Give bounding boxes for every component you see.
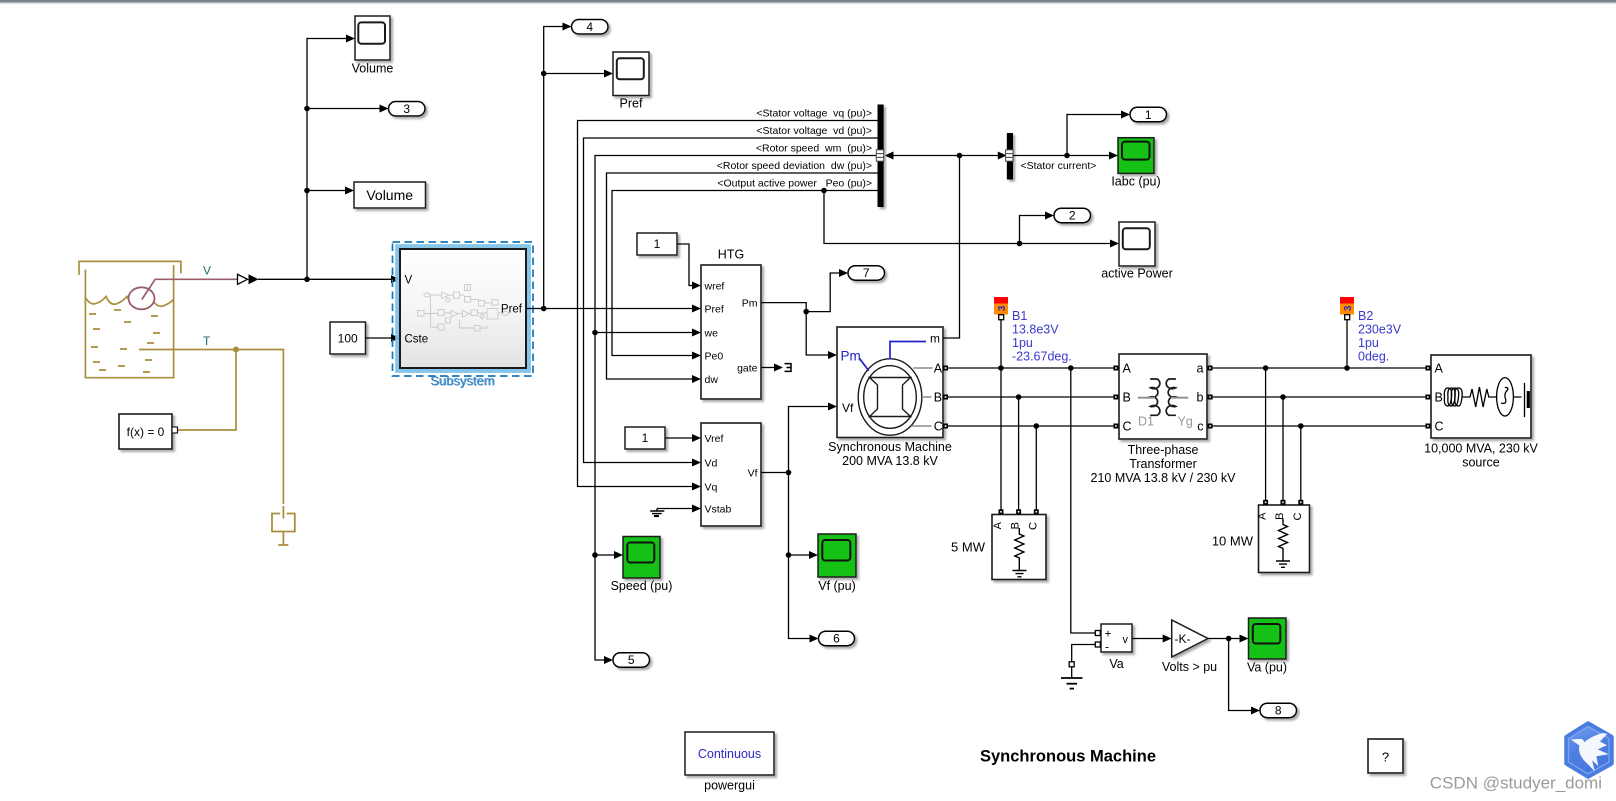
voltage measurement Va: [1101, 624, 1132, 652]
junction C-load: [1034, 423, 1040, 429]
svg-text:f(x) = 0: f(x) = 0: [127, 425, 165, 439]
transformer leads: [1138, 397, 1189, 399]
wire gain out: [1208, 638, 1240, 640]
svg-text:dw: dw: [705, 374, 719, 386]
junction Pm: [803, 309, 809, 315]
wire dw feedback: [607, 173, 878, 379]
tank (hydraulic reservoir): [79, 261, 181, 377]
wire to Speed scope: [595, 554, 614, 556]
bus selector 1: [878, 105, 884, 208]
svg-text:Va: Va: [1109, 657, 1123, 671]
toolbar strip: [0, 0, 1616, 3]
ground (Vstab): [650, 509, 664, 517]
svg-text:Pe0: Pe0: [705, 351, 724, 363]
junction Pref scope: [541, 71, 547, 77]
wire 5MW drop C: [1035, 426, 1037, 510]
junction m: [957, 153, 963, 159]
svg-text:Va (pu): Va (pu): [1247, 661, 1287, 675]
junction A-B1: [998, 365, 1004, 371]
junction we: [592, 330, 598, 336]
junction Speed: [592, 552, 598, 558]
tank water dashes: [89, 310, 160, 372]
scope Iabc (pu): [1118, 138, 1154, 174]
junction b-10MW: [1280, 394, 1286, 400]
wire vq feedback: [578, 121, 878, 487]
svg-text:Vf: Vf: [748, 468, 758, 480]
junction Va out: [1226, 636, 1232, 642]
svg-text:Vf (pu): Vf (pu): [818, 579, 856, 593]
svg-text:m: m: [930, 332, 940, 346]
wire vd feedback: [584, 138, 878, 463]
load 10 MW resistor: [1276, 519, 1290, 568]
wire selector2 out: [1013, 155, 1109, 157]
svg-text:Continuous: Continuous: [698, 747, 761, 761]
wire V branch column: [307, 39, 346, 280]
svg-text:Volume: Volume: [352, 62, 394, 76]
svg-text:1: 1: [1145, 108, 1152, 122]
svg-text:Vd: Vd: [705, 458, 718, 470]
svg-text:A: A: [1435, 362, 1444, 376]
wire to port 8: [1229, 639, 1252, 711]
wire 10MW drop B: [1282, 397, 1284, 500]
measurement B1 marker: [994, 297, 1008, 304]
constant 100: [330, 322, 366, 354]
wire Peo feedback: [612, 191, 878, 356]
svg-text:powergui: powergui: [704, 779, 755, 793]
svg-text:Pm: Pm: [841, 349, 861, 364]
wire gate to terminator: [761, 367, 774, 369]
svg-text:C: C: [1123, 420, 1132, 434]
svg-text:Pref: Pref: [705, 304, 724, 316]
wire to port 1: [1067, 115, 1122, 156]
wire 10MW drop A: [1265, 368, 1267, 500]
scope Pref: [613, 52, 649, 96]
wire to Vf scope: [789, 554, 810, 556]
svg-text:V: V: [405, 275, 413, 287]
svg-text:Cste: Cste: [405, 333, 429, 345]
wire wref: [677, 244, 692, 286]
svg-text:Vq: Vq: [705, 482, 718, 494]
source icon R-L-sine: [1444, 378, 1528, 417]
junction Iabc: [1064, 153, 1070, 159]
svg-text:1pu: 1pu: [1358, 336, 1379, 350]
scope Volume: [355, 16, 390, 60]
junction Pref: [541, 306, 547, 312]
junction: [304, 188, 310, 194]
wire Va minus to ground: [1072, 645, 1096, 662]
measurement B2 marker: [1340, 297, 1354, 304]
wire Pref out: [526, 308, 692, 310]
wire Pm to machine: [761, 303, 829, 355]
machine blue icon lines: [890, 342, 926, 360]
wire to Pref scope: [544, 73, 604, 75]
wire Vf to machine: [761, 407, 829, 473]
svg-text:10 MW: 10 MW: [1212, 534, 1254, 549]
wire 5MW drop B: [1018, 397, 1020, 510]
svg-text:Three-phase: Three-phase: [1128, 443, 1199, 457]
svg-text:Pref: Pref: [620, 97, 643, 111]
subsystem selection box: [398, 247, 529, 370]
svg-text:8: 8: [1275, 704, 1282, 718]
svg-text:B: B: [1274, 513, 1286, 520]
ground symbol: [1061, 667, 1083, 689]
svg-text:C: C: [1435, 420, 1444, 434]
transformer winding 1: [1150, 379, 1160, 415]
wire Vref: [665, 437, 692, 439]
HTG governor block: [701, 265, 761, 399]
ground pad: [1069, 662, 1074, 667]
svg-text:A: A: [992, 521, 1004, 529]
machine pads A B C: [943, 366, 948, 429]
port 8: [1260, 703, 1297, 718]
svg-text:+: +: [1105, 627, 1112, 641]
svg-text:c: c: [1197, 420, 1203, 434]
wire to port 3: [307, 108, 380, 110]
pump circle on tank: [129, 287, 155, 309]
machine rotor I-beam: [870, 378, 911, 417]
svg-text:source: source: [1462, 456, 1500, 470]
svg-text:1pu: 1pu: [1012, 336, 1033, 350]
wire m into selector 1: [888, 155, 960, 157]
svg-text:3: 3: [403, 102, 410, 116]
wire Peo to active Power: [824, 191, 1110, 244]
wire m to bus selector: [943, 156, 960, 339]
machine stator ellipse: [858, 359, 922, 435]
wire Pref column up: [544, 27, 563, 309]
PS-Simulink converter: [238, 274, 248, 284]
scope Vf (pu): [818, 534, 856, 577]
wire phase c: [1213, 425, 1426, 427]
svg-text:Speed (pu): Speed (pu): [611, 579, 673, 593]
label B1: [1012, 309, 1072, 364]
svg-text:A: A: [1257, 512, 1269, 520]
svg-text:200 MVA 13.8 kV: 200 MVA 13.8 kV: [842, 454, 938, 468]
svg-text:b: b: [1197, 391, 1204, 405]
svg-text:CSDN @studyer_domi: CSDN @studyer_domi: [1430, 774, 1602, 793]
wire phase a transformer to source: [1213, 367, 1426, 369]
hydraulic reference: [272, 506, 295, 545]
wire T to solver: [178, 350, 237, 431]
goto Volume: [354, 182, 426, 208]
junction a-B2: [1344, 365, 1350, 371]
wire phase B: [948, 396, 1113, 398]
port 4: [572, 20, 609, 35]
wire wm feedback: [595, 156, 878, 661]
model info block ?: [1368, 739, 1403, 773]
wire Pm to port 7: [806, 273, 840, 312]
wire T (physical): [139, 350, 283, 505]
svg-text:1: 1: [642, 431, 649, 445]
svg-text:Pm: Pm: [742, 298, 758, 310]
svg-text:5 MW: 5 MW: [951, 540, 986, 555]
svg-text:Volts > pu: Volts > pu: [1162, 660, 1217, 674]
junction Peo branch: [821, 188, 827, 194]
svg-text:Vf: Vf: [842, 401, 854, 415]
bus selector 2: [1007, 133, 1013, 180]
svg-text:210 MVA 13.8 kV / 230 kV: 210 MVA 13.8 kV / 230 kV: [1091, 471, 1237, 485]
junction port 2: [1017, 241, 1023, 247]
svg-text:Subsystem: Subsystem: [430, 373, 494, 388]
constant 1 (Vref): [625, 427, 665, 449]
svg-text:we: we: [704, 328, 719, 340]
transformer winding 2: [1166, 379, 1176, 415]
synchronous machine block: [837, 327, 943, 438]
svg-text:T: T: [203, 334, 211, 348]
wire Va feed: [1071, 368, 1096, 633]
wire 10MW drop C: [1300, 426, 1302, 500]
svg-text:Iabc (pu): Iabc (pu): [1111, 175, 1160, 189]
port 7: [848, 266, 885, 281]
constant 1 (wref): [637, 233, 677, 255]
svg-text:v: v: [1123, 634, 1129, 646]
svg-text:Transformer: Transformer: [1129, 457, 1197, 471]
svg-text:Vref: Vref: [705, 433, 724, 445]
junction T: [233, 347, 239, 353]
wire B1 drop: [1000, 320, 1002, 368]
wire Va to gain: [1132, 638, 1163, 640]
port 1: [1130, 107, 1167, 122]
junction a-10MW: [1263, 365, 1269, 371]
wire ground to Vstab: [657, 508, 692, 510]
load 5 MW block: [992, 515, 1046, 580]
svg-text:4: 4: [586, 20, 593, 34]
wire 100 to Cste: [366, 337, 395, 339]
junction Vf: [786, 470, 792, 476]
port 5: [613, 653, 650, 668]
port 2: [1054, 208, 1091, 223]
junction B-load: [1016, 394, 1022, 400]
svg-text:<Output active power Peo (pu: <Output active power Peo (pu)>: [717, 178, 872, 190]
pump lever / V signal line (physical): [142, 279, 237, 299]
load 10 MW block: [1259, 505, 1310, 573]
svg-text:3: 3: [1343, 305, 1354, 311]
powergui block: [685, 732, 774, 775]
wire to Volume goto: [307, 190, 345, 192]
wire we into HTG: [595, 332, 692, 334]
subsystem preview sketch: [418, 285, 509, 332]
scope Va (pu): [1249, 618, 1287, 659]
svg-text:3: 3: [997, 305, 1008, 311]
svg-text:B: B: [934, 391, 942, 405]
gain Volts > pu: [1172, 620, 1208, 657]
svg-text:C: C: [1027, 522, 1039, 530]
logo CSDN hexagon: [1567, 724, 1612, 777]
excitation system block: [701, 423, 761, 526]
svg-text:2: 2: [1069, 209, 1076, 223]
svg-text:wref: wref: [704, 281, 725, 293]
svg-text:7: 7: [863, 266, 870, 280]
label B2: [1358, 309, 1402, 364]
svg-text:C: C: [1292, 512, 1304, 520]
three-phase transformer block: [1119, 354, 1207, 439]
svg-text:B2: B2: [1358, 309, 1373, 323]
svg-text:C: C: [934, 420, 943, 434]
junction A-Va: [1068, 365, 1074, 371]
svg-text:<Stator voltage vd (pu)>: <Stator voltage vd (pu)>: [756, 125, 872, 137]
junction: [304, 106, 310, 112]
svg-text:A: A: [1123, 362, 1132, 376]
load 5 MW resistor: [1013, 528, 1027, 577]
junction Vf scope: [786, 552, 792, 558]
wire Vf column down: [789, 473, 811, 639]
wire phase b: [1213, 396, 1426, 398]
svg-text:Yg: Yg: [1178, 415, 1193, 429]
svg-text:5: 5: [628, 653, 635, 667]
svg-text:D1: D1: [1138, 415, 1154, 429]
wire phase A machine to transformer: [948, 367, 1113, 369]
svg-text:a: a: [1197, 362, 1204, 376]
svg-text:6: 6: [833, 632, 840, 646]
svg-text:0deg.: 0deg.: [1358, 350, 1389, 364]
scope Speed (pu): [623, 537, 660, 579]
wire B2 drop: [1346, 320, 1348, 368]
wire V to subsystem: [258, 278, 394, 280]
scope active Power: [1119, 222, 1155, 266]
svg-text:B1: B1: [1012, 309, 1027, 323]
svg-text:10,000 MVA, 230 kV: 10,000 MVA, 230 kV: [1424, 442, 1538, 456]
svg-text:<Stator voltage vq (pu)>: <Stator voltage vq (pu)>: [756, 108, 872, 120]
svg-text:active Power: active Power: [1101, 267, 1173, 281]
node junction V: [304, 277, 310, 283]
junction c-10MW: [1298, 423, 1304, 429]
svg-text:100: 100: [338, 332, 358, 346]
svg-text:Pref: Pref: [501, 304, 523, 316]
svg-text:HTG: HTG: [718, 248, 744, 262]
svg-text:Volume: Volume: [366, 187, 413, 203]
svg-text:<Rotor speed deviation dw (pu: <Rotor speed deviation dw (pu)>: [717, 160, 872, 172]
svg-text:B: B: [1435, 391, 1443, 405]
solver f(x)=0: [119, 414, 172, 449]
svg-text:Synchronous Machine: Synchronous Machine: [828, 440, 952, 454]
svg-text:-23.67deg.: -23.67deg.: [1012, 350, 1072, 364]
wire phase C: [948, 425, 1113, 427]
source block 10,000 MVA: [1431, 355, 1531, 438]
svg-text:Synchronous Machine: Synchronous Machine: [980, 748, 1156, 766]
svg-text:B: B: [1123, 391, 1131, 405]
svg-text:-: -: [1105, 640, 1109, 654]
svg-text:gate: gate: [737, 363, 758, 375]
wire 5MW drop A: [1000, 368, 1002, 510]
machine gray stubs: [911, 368, 932, 426]
terminator gate: [785, 364, 792, 372]
svg-text:?: ?: [1382, 750, 1389, 765]
svg-text:230e3V: 230e3V: [1358, 323, 1402, 337]
port 3: [389, 102, 426, 117]
wire to port 2: [1020, 216, 1046, 244]
subsystem Subsystem: [400, 249, 526, 368]
svg-text:A: A: [934, 362, 943, 376]
wire m to selector 2: [960, 155, 999, 157]
svg-text:-K-: -K-: [1175, 632, 1191, 646]
svg-text:1: 1: [654, 237, 661, 251]
svg-text:V: V: [203, 264, 211, 278]
svg-text:<Stator current>: <Stator current>: [1021, 160, 1097, 172]
svg-text:Vstab: Vstab: [705, 504, 732, 516]
port 6: [819, 631, 855, 646]
svg-text:13.8e3V: 13.8e3V: [1012, 323, 1059, 337]
svg-text:<Rotor speed wm (pu)>: <Rotor speed wm (pu)>: [756, 143, 872, 155]
